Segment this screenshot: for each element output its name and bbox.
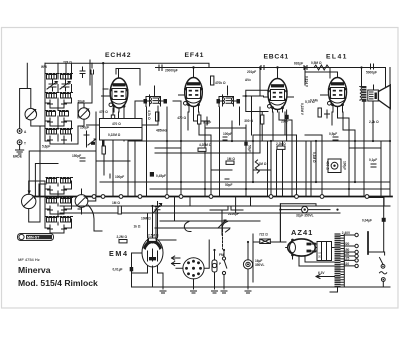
resistor 2,2k bbox=[276, 142, 286, 149]
svg-text:470k Ω: 470k Ω bbox=[215, 81, 226, 85]
tube EBC41 U3 bbox=[264, 66, 294, 112]
socket wires bbox=[176, 240, 209, 287]
arrows EM4 target bbox=[172, 256, 181, 266]
capacitor 0,01uF EM4 bbox=[113, 267, 134, 272]
coil L7 row 7 bbox=[46, 129, 59, 135]
svg-text:300 Ω: 300 Ω bbox=[244, 119, 253, 123]
variable capacitor C3 (osc gang a) bbox=[22, 194, 36, 208]
resistor 170 ohm EL41 cathode bbox=[305, 100, 321, 117]
coil L11 bbox=[46, 198, 59, 204]
capacitor osc row2 a bbox=[48, 186, 53, 194]
ground symbol under T bbox=[16, 145, 24, 154]
svg-text:32µF 350VL: 32µF 350VL bbox=[296, 214, 314, 218]
svg-text:ERDE: ERDE bbox=[13, 155, 22, 159]
resistor 0,5M bbox=[311, 61, 329, 70]
mains plug terminal bbox=[381, 278, 385, 287]
electrolytic 16uF 350VL bbox=[243, 242, 264, 287]
resistor 470k vertical bbox=[211, 76, 226, 85]
coil L4 row 3 bbox=[60, 93, 73, 99]
capacitor 20uF EBC41 cathode bbox=[281, 110, 289, 124]
wire AVC feed vertical bbox=[102, 63, 104, 148]
dial lamp P bbox=[212, 250, 222, 287]
svg-text:50µF: 50µF bbox=[248, 145, 252, 152]
capacitor row 4 b bbox=[62, 100, 67, 108]
svg-text:220: 220 bbox=[344, 242, 350, 246]
resistor 300 ohm EBC41 cathode bbox=[244, 115, 264, 124]
svg-text:201pF: 201pF bbox=[247, 70, 256, 74]
trimmer capacitor padder bbox=[154, 202, 162, 215]
coil L9 bbox=[46, 178, 59, 184]
svg-text:1M Ω: 1M Ω bbox=[259, 162, 267, 166]
capacitor osc row4 a bbox=[48, 206, 53, 214]
wire heater drops bbox=[175, 197, 251, 222]
svg-text:4,28M Ω: 4,28M Ω bbox=[199, 143, 212, 147]
choke 50ohm box bbox=[317, 242, 332, 261]
svg-text:0,04µF: 0,04µF bbox=[362, 219, 372, 223]
svg-text:FM: FM bbox=[219, 253, 224, 257]
wires row4 bbox=[45, 103, 72, 108]
potentiometer volume bbox=[218, 210, 226, 235]
ground symbols row bbox=[160, 287, 251, 293]
capacitor 150pF osc coupling bbox=[80, 126, 89, 140]
wire mains feed bbox=[368, 198, 385, 256]
tube ECH42 U1 bbox=[102, 69, 129, 113]
svg-text:0,22M V: 0,22M V bbox=[300, 103, 304, 116]
power transformer T4 bbox=[335, 233, 345, 287]
svg-text:10M Ω: 10M Ω bbox=[141, 217, 151, 221]
capacitor osc row2 b bbox=[62, 186, 67, 194]
svg-text:100pF: 100pF bbox=[223, 132, 232, 136]
coil L3 row 3 bbox=[46, 93, 59, 99]
box network under ECH42 bbox=[100, 119, 143, 141]
dashed mech link bbox=[222, 230, 224, 249]
loudspeaker LS bbox=[368, 85, 391, 109]
svg-text:T: T bbox=[24, 142, 26, 146]
wire antenna up bbox=[20, 63, 31, 128]
svg-text:EL41: EL41 bbox=[326, 54, 348, 61]
svg-text:5000pF: 5000pF bbox=[366, 71, 377, 75]
svg-text:0,814 V: 0,814 V bbox=[305, 76, 309, 88]
svg-text:1M Ω: 1M Ω bbox=[227, 157, 235, 161]
switch FM bbox=[219, 250, 227, 287]
electrolytic 100uF + resistor 400ohm bbox=[326, 159, 347, 173]
capacitor 150pF bbox=[72, 154, 85, 161]
svg-text:140: 140 bbox=[344, 252, 350, 256]
voltage taps bbox=[342, 231, 359, 267]
svg-text:EM4: EM4 bbox=[109, 249, 129, 258]
capacitor 2500pF bbox=[210, 206, 243, 216]
wire: ECH42 top box bbox=[116, 69, 140, 86]
svg-text:0,5µF: 0,5µF bbox=[329, 132, 337, 136]
trimmer capacitor row 2 left bbox=[47, 80, 57, 91]
resistor 1M osc bbox=[112, 201, 121, 214]
capacitor row 4 a bbox=[48, 100, 53, 108]
wire osc feedback corner 2 bbox=[39, 184, 46, 197]
capacitor 0,04uF bbox=[362, 218, 386, 223]
variable capacitor C4 (osc gang b) bbox=[75, 195, 88, 208]
junction open circles on ground bus bbox=[92, 195, 369, 199]
tube EF41 U2 bbox=[179, 66, 204, 112]
output transformer T3 bbox=[360, 86, 367, 102]
svg-text:MIN-ST: MIN-ST bbox=[27, 236, 40, 240]
capacitor 20000pF bbox=[159, 65, 178, 73]
coil L5 row 5 bbox=[46, 111, 56, 117]
capacitor 100pF bbox=[110, 174, 124, 179]
svg-text:0,45µF: 0,45µF bbox=[156, 174, 166, 178]
resistor ECH42 cathode bbox=[99, 110, 115, 124]
svg-text:722 Ω: 722 Ω bbox=[259, 233, 268, 237]
svg-text:470 Ω: 470 Ω bbox=[99, 110, 108, 114]
wire osc feedback corner 1 bbox=[35, 164, 58, 197]
capacitor 50pF bbox=[225, 179, 232, 187]
svg-text:AVc: AVc bbox=[245, 78, 251, 82]
svg-text:6,3V: 6,3V bbox=[318, 271, 325, 275]
capacitor 5000pF bbox=[366, 64, 377, 75]
capacitor 692pF bbox=[294, 62, 307, 70]
wire AVC return with arrow bbox=[28, 151, 95, 195]
svg-text:1M Ω: 1M Ω bbox=[112, 201, 120, 205]
svg-text:50pF: 50pF bbox=[225, 183, 232, 187]
capacitor top right pair bbox=[80, 67, 94, 78]
trimmer arrow bbox=[88, 139, 96, 145]
wire column extension bbox=[95, 161, 97, 197]
wire top row AM bbox=[45, 63, 92, 73]
junction dot on AVC line bbox=[102, 62, 104, 64]
IF transformer T2 bbox=[217, 95, 241, 107]
wires osc verticals bbox=[29, 181, 82, 222]
resistor 4,28M bbox=[198, 143, 212, 151]
resistor 2,8M bbox=[117, 235, 128, 243]
svg-text:50 Ω: 50 Ω bbox=[318, 252, 322, 258]
wire to mixer grid bbox=[87, 120, 103, 148]
wire EBC41 left network bbox=[243, 90, 268, 135]
coil L12 bbox=[60, 198, 73, 204]
coil L2 antenna bbox=[60, 74, 73, 80]
svg-text:0,22M Ω: 0,22M Ω bbox=[108, 133, 121, 137]
svg-text:278 Ω: 278 Ω bbox=[63, 61, 72, 65]
terminal T (earth) bbox=[17, 140, 26, 146]
capacitor EL41 cathode bypass bbox=[325, 110, 330, 118]
svg-text:EF41: EF41 bbox=[185, 52, 205, 59]
svg-text:2,2k Ω: 2,2k Ω bbox=[276, 142, 286, 146]
svg-text:692pF: 692pF bbox=[294, 62, 303, 66]
tube AZ41 rectifier bbox=[286, 239, 317, 259]
capacitor row 6 b bbox=[62, 118, 67, 126]
capacitor osc row6 a bbox=[48, 225, 53, 233]
capacitor row 8 a bbox=[48, 136, 53, 144]
resistor 470 ohm EF41 cathode bbox=[177, 115, 201, 124]
svg-text:125: 125 bbox=[344, 257, 350, 261]
capacitor EF41 cathode bypass bbox=[205, 117, 210, 125]
svg-text:350VL: 350VL bbox=[255, 263, 264, 267]
resistor 1M b bbox=[255, 160, 267, 173]
svg-text:150pF: 150pF bbox=[72, 154, 81, 158]
wire power box bbox=[156, 206, 286, 282]
wire: bottom heater bus bbox=[132, 286, 391, 288]
svg-text:2250µF: 2250µF bbox=[228, 212, 239, 216]
vertical drops bbox=[90, 60, 135, 197]
resistor 722ohm bbox=[259, 233, 270, 244]
wire rows mid band bbox=[96, 141, 390, 189]
coil L1 antenna bbox=[46, 74, 59, 80]
svg-text:2,2M Ω: 2,2M Ω bbox=[117, 235, 128, 239]
coil L8 row 7 bbox=[60, 129, 73, 135]
svg-text:ECH42: ECH42 bbox=[105, 52, 131, 59]
wire: top AVC line bbox=[45, 63, 209, 67]
tube EM4 magic eye bbox=[142, 238, 163, 278]
svg-text:AZ41: AZ41 bbox=[291, 228, 313, 237]
wire rectifier box outline bbox=[280, 204, 316, 242]
svg-text:150pF: 150pF bbox=[80, 126, 89, 130]
variable capacitor C2 (tuning gang b) bbox=[78, 108, 89, 119]
resistor IF secondary bbox=[156, 112, 159, 121]
capacitor osc row4 b bbox=[62, 206, 67, 214]
svg-text:1k Ω: 1k Ω bbox=[134, 225, 141, 229]
capacitor row 6 a bbox=[48, 118, 53, 126]
svg-text:470 Ω: 470 Ω bbox=[112, 122, 121, 126]
mains cord squiggle bbox=[380, 272, 387, 274]
tube socket (underside view) bbox=[183, 258, 204, 279]
svg-text:30pF: 30pF bbox=[78, 100, 85, 104]
svg-text:470 Ω: 470 Ω bbox=[177, 116, 186, 120]
svg-text:9,74k: 9,74k bbox=[310, 99, 318, 103]
svg-text:110: 110 bbox=[344, 262, 349, 266]
logo Minerva badge bbox=[18, 234, 54, 241]
capacitor 100pF b bbox=[223, 132, 232, 140]
svg-text:MF 4754 Hz: MF 4754 Hz bbox=[18, 257, 40, 262]
svg-text:4,7k Ω: 4,7k Ω bbox=[147, 110, 151, 120]
junction dots mid band bbox=[151, 66, 391, 251]
switch hooks band switch bbox=[184, 222, 229, 233]
mains switch bbox=[380, 258, 385, 269]
wires EM4 bbox=[148, 206, 158, 243]
capacitor 0,1uF out bbox=[369, 158, 377, 167]
wire heater from transformer bbox=[316, 275, 383, 293]
svg-text:100pF: 100pF bbox=[115, 175, 124, 179]
svg-text:0,1µF: 0,1µF bbox=[369, 158, 377, 162]
wire AZ41 connections bbox=[299, 248, 335, 267]
wire extra mid segments bbox=[128, 125, 381, 170]
svg-text:5,6pF: 5,6pF bbox=[42, 145, 50, 149]
capacitor row 8 b bbox=[62, 136, 67, 144]
svg-text:Minerva: Minerva bbox=[18, 265, 51, 275]
svg-text:0,5M Ω: 0,5M Ω bbox=[311, 61, 322, 65]
svg-text:0,1M Ω: 0,1M Ω bbox=[312, 152, 316, 163]
svg-text:Mod. 515/4 Rimlock: Mod. 515/4 Rimlock bbox=[18, 278, 98, 288]
electrolytic C 32uF 350VL bbox=[280, 204, 330, 242]
coil L6 row 5 bbox=[59, 111, 69, 117]
svg-text:2,2k Ω: 2,2k Ω bbox=[369, 120, 379, 124]
wire: chassis ground bus bbox=[30, 196, 392, 198]
coil L13 bbox=[46, 217, 59, 223]
trimmer capacitor row 2 right bbox=[60, 80, 70, 91]
resistor 2,5M above EM4 bbox=[148, 234, 159, 242]
capacitor 50uF with vertical label bbox=[244, 142, 251, 153]
resistor 1M bbox=[226, 157, 235, 164]
svg-text:WW: WW bbox=[41, 65, 47, 69]
tube EL41 U4 bbox=[304, 66, 347, 112]
svg-text:100µF: 100µF bbox=[343, 161, 347, 170]
voltage selector bar bbox=[367, 232, 369, 254]
wire: top HT line bbox=[156, 68, 386, 87]
capacitor 219pF bbox=[247, 66, 264, 75]
coil L14 bbox=[60, 217, 73, 223]
IF transformer T1 bbox=[144, 95, 168, 120]
svg-text:20000pF: 20000pF bbox=[165, 69, 178, 73]
capacitor osc row6 b bbox=[62, 225, 67, 233]
capacitor 0,5uF bbox=[329, 132, 338, 140]
svg-text:485kHz: 485kHz bbox=[156, 129, 167, 133]
svg-text:20µF: 20µF bbox=[281, 120, 288, 124]
resistor 0,22M bbox=[102, 146, 105, 154]
terminal A (antenna) bbox=[17, 129, 27, 134]
coil L10 bbox=[60, 178, 73, 184]
wires tuner section verticals bbox=[31, 103, 84, 126]
variable capacitor C1 (tuning gang a) bbox=[25, 108, 37, 120]
svg-text:400 Ω: 400 Ω bbox=[326, 161, 330, 170]
svg-text:0,01µF: 0,01µF bbox=[113, 268, 123, 272]
svg-text:EBC41: EBC41 bbox=[264, 54, 289, 61]
svg-text:2,40V: 2,40V bbox=[342, 231, 351, 235]
capacitor 045uF bbox=[150, 172, 166, 178]
